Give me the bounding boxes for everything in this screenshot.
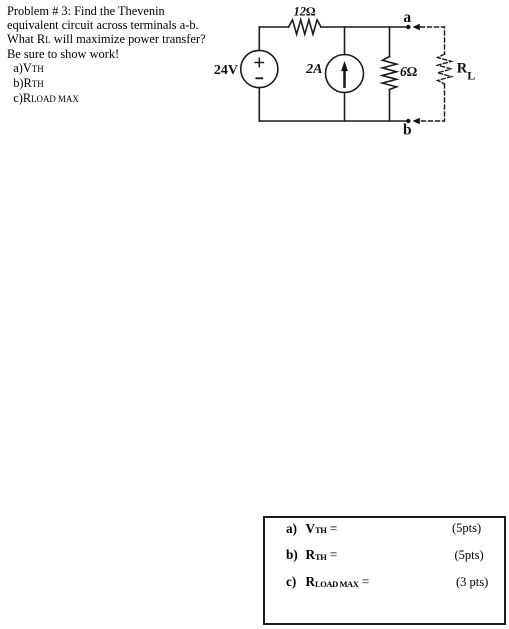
current source I1 2A	[305, 55, 363, 93]
svg-text:2A: 2A	[305, 62, 322, 77]
wire 6 ohm bottom lead	[389, 90, 391, 122]
node b (terminal dot and label)	[403, 119, 412, 139]
wire dashed top connection to load (arrow into node a)	[413, 24, 445, 54]
load resistor RL (dashed)	[438, 54, 476, 84]
svg-text:R: R	[457, 61, 468, 77]
svg-text:a: a	[403, 9, 411, 26]
svg-text:24V: 24V	[214, 63, 238, 78]
svg-text:b: b	[403, 122, 412, 139]
answer box	[263, 516, 506, 625]
problem statement text	[7, 5, 205, 107]
wire current source bottom lead	[344, 93, 346, 122]
wire dashed bottom connection to load (arrow into node b)	[413, 84, 445, 124]
wire 6 ohm top lead	[389, 27, 391, 57]
svg-text:L: L	[467, 69, 475, 83]
wire top-left vertical (source to top rail)	[258, 27, 260, 51]
wire top rail left segment	[259, 26, 288, 28]
svg-text:12Ω: 12Ω	[293, 5, 316, 19]
wire bottom-left vertical (source to bottom rail)	[258, 88, 260, 121]
svg-text:6Ω: 6Ω	[400, 64, 418, 79]
resistor R1 12 ohm (horizontal)	[289, 5, 322, 35]
wire bottom rail	[259, 120, 406, 122]
resistor R2 6 ohm (vertical)	[382, 57, 417, 90]
node a (terminal dot and label)	[403, 9, 411, 29]
voltage source V1 24V	[214, 50, 278, 87]
wire current source top lead	[344, 27, 346, 55]
wire top rail right segment to node a	[321, 26, 407, 28]
